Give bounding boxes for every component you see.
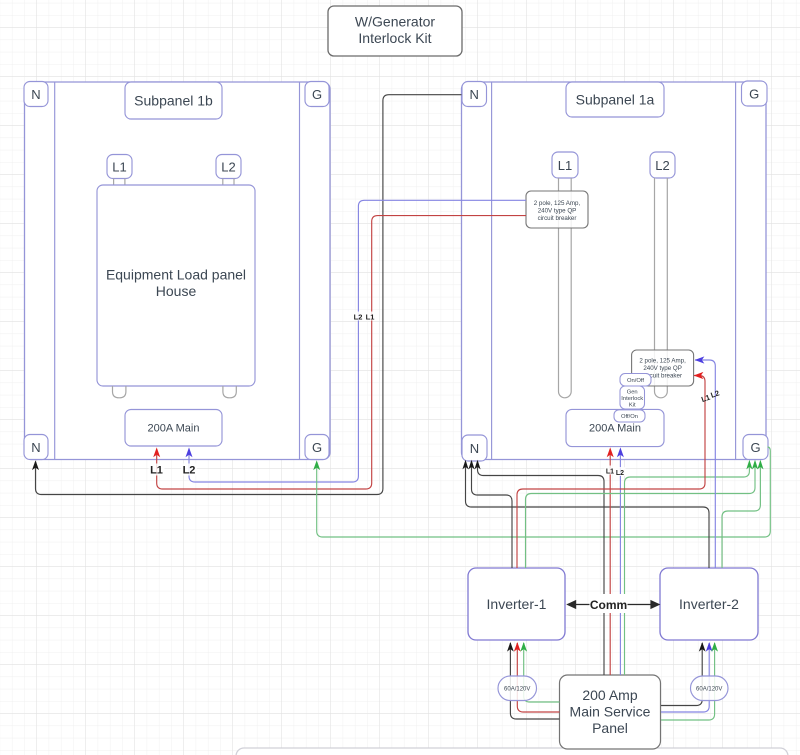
node G bus top 1b: [305, 82, 329, 107]
subpanel 1b enclosure: [25, 82, 331, 460]
svg-text:60A/120V: 60A/120V: [696, 687, 722, 693]
svg-text:Inverter-2: Inverter-2: [679, 596, 739, 612]
svg-text:G: G: [749, 87, 759, 102]
svg-text:L2: L2: [616, 470, 624, 477]
wire main panel to inverter-2 ground (green): [661, 643, 715, 720]
arrowhead red into breaker QP2: [694, 372, 704, 379]
partially visible ground bus element at bottom: [236, 748, 788, 755]
svg-text:N: N: [31, 87, 40, 102]
svg-text:200A Main: 200A Main: [589, 423, 641, 435]
svg-text:Panel: Panel: [592, 720, 628, 736]
svg-text:N: N: [31, 440, 40, 455]
svg-text:Gen: Gen: [627, 390, 638, 396]
svg-text:G: G: [312, 87, 322, 102]
switch On/Off: [620, 374, 651, 387]
node N bus bottom 1b: [24, 435, 48, 460]
node N bus bottom 1a: [462, 435, 487, 461]
inverter-1: [468, 568, 565, 640]
terminal L1 subpanel 1a: [552, 152, 578, 178]
arrowhead red into 1b 200A Main L1: [153, 447, 160, 457]
tab pin under equipment box left: [113, 386, 126, 398]
wire neutral 1a-N to inverter-2 (black): [466, 462, 710, 568]
svg-text:2 pole, 125 Amp,: 2 pole, 125 Amp,: [639, 358, 686, 365]
wire L2 breaker QP2 to inverter-2 (blue): [695, 360, 715, 568]
svg-text:Interlock: Interlock: [621, 396, 643, 402]
breaker pole pins from L2 1a: [655, 178, 668, 398]
svg-text:L1: L1: [366, 312, 375, 321]
svg-text:200 Amp: 200 Amp: [582, 687, 637, 703]
svg-text:G: G: [312, 440, 322, 455]
svg-text:On/Off: On/Off: [627, 378, 644, 384]
svg-text:Inverter-1: Inverter-1: [487, 596, 547, 612]
label L2 at 1a main riser: [615, 467, 626, 477]
svg-text:W/Generator: W/Generator: [355, 14, 435, 30]
wire neutral 1a-N to main panel (black): [478, 462, 605, 675]
label L1 at 1b main: [149, 464, 165, 477]
wire L2 1b to breaker QP1 (blue): [189, 200, 526, 482]
svg-text:L1: L1: [606, 468, 614, 475]
arrowhead red into 1a 200A Main L1: [607, 447, 614, 457]
wire L2 1a-200A-Main to main panel (blue): [619, 450, 621, 675]
node N bus top 1b: [24, 82, 48, 107]
circuit breaker QP 2 (generator): [632, 350, 694, 386]
terminal L2 subpanel 1a: [650, 152, 675, 178]
svg-text:L2: L2: [655, 158, 669, 173]
node N bus top 1a: [462, 82, 487, 107]
label L1 on red riser: [365, 312, 376, 322]
svg-text:L2: L2: [221, 160, 235, 175]
svg-text:60A/120V: 60A/120V: [504, 687, 530, 693]
svg-text:Equipment Load panel: Equipment Load panel: [106, 267, 246, 283]
node G bus bottom 1a: [743, 435, 768, 460]
svg-text:circuit breaker: circuit breaker: [538, 215, 577, 222]
svg-text:Main Service: Main Service: [570, 704, 651, 720]
wire ground 1a-G to inverter-2 (green): [722, 462, 760, 568]
switch Off/On: [614, 410, 645, 422]
svg-text:L1: L1: [112, 160, 126, 175]
svg-text:L1: L1: [150, 465, 163, 477]
arrowheads green x3 into 1a G: [746, 460, 763, 470]
wire ground 1a-G to inverter-1 (green): [526, 462, 756, 568]
arrowhead blue into 1a 200A Main L2: [617, 447, 624, 457]
wire neutral 1a-N to inverter-1 (black): [472, 462, 513, 568]
wire neutral 1b-N to 1a-N (black): [36, 95, 462, 495]
terminal L1 subpanel 1b: [107, 155, 132, 179]
circuit breaker QP 1 (feeds subpanel 1b): [526, 191, 588, 228]
pin stubs L2 1b: [223, 179, 234, 186]
wire main panel to inverter-1 ground (green): [524, 643, 560, 702]
comm link between inverters: [566, 594, 660, 613]
inverter-2: [660, 568, 758, 640]
breaker 60A/120V inverter-2 feed: [691, 676, 729, 701]
wire main panel to inverter-2 neutral (black): [661, 643, 702, 706]
arrowheads black x3 into 1a N: [462, 460, 480, 470]
svg-text:Subpanel 1b: Subpanel 1b: [134, 93, 213, 109]
node G bus bottom 1b: [305, 435, 329, 460]
breaker 200A Main 1a: [566, 409, 664, 446]
svg-text:200A Main: 200A Main: [148, 423, 200, 435]
svg-text:L2: L2: [354, 312, 363, 321]
title box W/Generator Interlock Kit: [328, 6, 462, 56]
svg-text:240V type QP: 240V type QP: [643, 365, 682, 372]
label L2 at 1b main: [181, 464, 197, 477]
wire ground 1a-G to main panel (green): [625, 462, 750, 675]
svg-text:Off/On: Off/On: [621, 414, 638, 420]
wire main panel to inverter-1 L1 (red): [517, 643, 559, 712]
breaker 200A Main 1b: [125, 410, 222, 447]
svg-text:House: House: [156, 283, 197, 299]
svg-text:2 pole, 125 Amp,: 2 pole, 125 Amp,: [534, 200, 581, 207]
svg-text:Interlock Kit: Interlock Kit: [358, 30, 431, 46]
wire ground 1b-G to 1a-G (green): [317, 447, 771, 537]
subpanel 1b title: [125, 82, 222, 119]
svg-text:L1: L1: [558, 158, 572, 173]
terminal L2 subpanel 1b: [216, 155, 241, 179]
svg-text:240V type QP: 240V type QP: [538, 208, 577, 215]
equipment load panel house box: [97, 185, 255, 386]
label L1 at 1a main riser: [605, 466, 616, 476]
subpanel 1a title: [566, 82, 664, 117]
arrowhead green into 1b G: [313, 460, 320, 470]
wire main panel to inverter-2 L2 (blue): [661, 643, 709, 712]
pin stubs L1 1b: [114, 179, 125, 186]
svg-text:G: G: [750, 440, 760, 455]
svg-text:N: N: [470, 441, 479, 456]
svg-text:Subpanel 1a: Subpanel 1a: [576, 92, 655, 108]
breaker pole pins from L1 1a: [559, 178, 572, 398]
arrowheads into inverter-2 bottom: [699, 642, 706, 652]
wire L1 1a-200A-Main to main panel (red): [609, 450, 611, 675]
200 amp main service panel: [560, 675, 661, 749]
svg-text:Kit: Kit: [629, 403, 636, 409]
label L2 on blue riser: [353, 312, 364, 322]
tab pin under equipment box right: [223, 386, 236, 398]
arrowhead black into 1b N: [32, 460, 39, 470]
node G bus top 1a: [742, 81, 768, 106]
breaker 60A/120V inverter-1 feed: [498, 676, 537, 701]
svg-text:L2: L2: [183, 465, 196, 477]
arrowheads into inverter-1 bottom: [507, 642, 514, 652]
arrowhead blue into breaker QP2: [695, 356, 705, 363]
wire main panel to inverter-1 neutral (black): [510, 643, 559, 719]
wire L1 breaker QP2 to inverter-1 (red): [517, 376, 705, 569]
subpanel 1a enclosure: [462, 82, 767, 460]
svg-text:Comm: Comm: [590, 598, 627, 612]
wire L1 1b to breaker QP1 (red): [157, 216, 526, 489]
svg-text:N: N: [470, 87, 479, 102]
gen interlock kit: [620, 386, 645, 409]
arrowhead blue into 1b 200A Main L2: [186, 447, 193, 457]
